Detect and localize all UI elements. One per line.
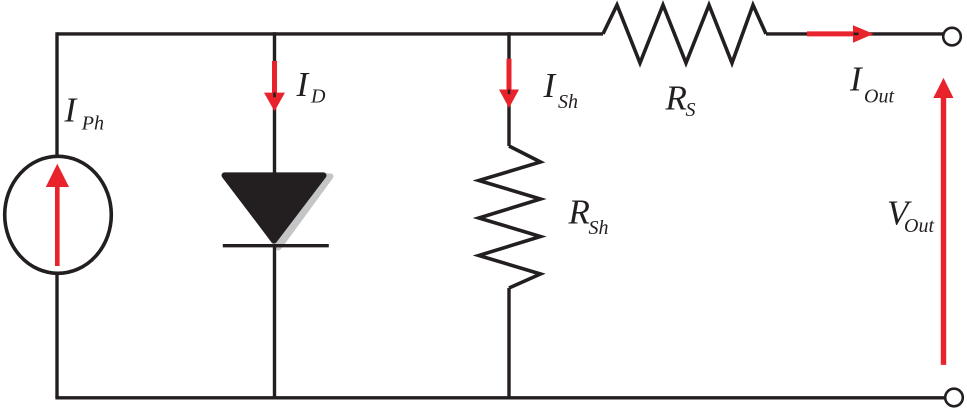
terminal node positive — [943, 28, 961, 46]
wire left lower vertical — [55, 273, 58, 398]
svg-text:Sh: Sh — [558, 91, 578, 113]
svg-text:R: R — [568, 193, 590, 232]
wire top-right segment — [766, 32, 943, 35]
arrow IOut — [807, 25, 874, 43]
shunt branch upper wire — [507, 32, 510, 146]
IPh arrow — [46, 164, 69, 266]
diode branch lower wire — [273, 246, 276, 398]
svg-text:Out: Out — [904, 215, 934, 237]
shunt branch lower wire — [507, 288, 510, 398]
svg-text:D: D — [310, 86, 326, 108]
arrow VOut — [933, 78, 953, 365]
diode cathode bar — [223, 244, 329, 247]
terminal node negative — [945, 389, 963, 407]
resistor RSh — [479, 146, 541, 288]
arrow ID — [264, 61, 285, 111]
svg-text:I: I — [64, 91, 79, 130]
diode D1 — [225, 175, 324, 240]
svg-text:S: S — [686, 99, 696, 121]
current source IPh — [5, 156, 112, 273]
diode branch upper wire — [273, 32, 276, 175]
svg-text:R: R — [665, 78, 687, 117]
diode D1 shadow — [227, 176, 331, 247]
svg-text:I: I — [543, 66, 558, 105]
svg-text:I: I — [849, 59, 864, 98]
wire bottom — [55, 396, 945, 399]
wire left upper vertical — [55, 32, 58, 158]
svg-text:I: I — [296, 65, 311, 104]
svg-text:Sh: Sh — [589, 217, 609, 239]
resistor RS — [603, 5, 766, 63]
svg-text:Out: Out — [864, 86, 894, 108]
svg-text:Ph: Ph — [81, 113, 104, 135]
wire top-left segment — [57, 32, 603, 35]
arrow ISh — [499, 59, 519, 108]
